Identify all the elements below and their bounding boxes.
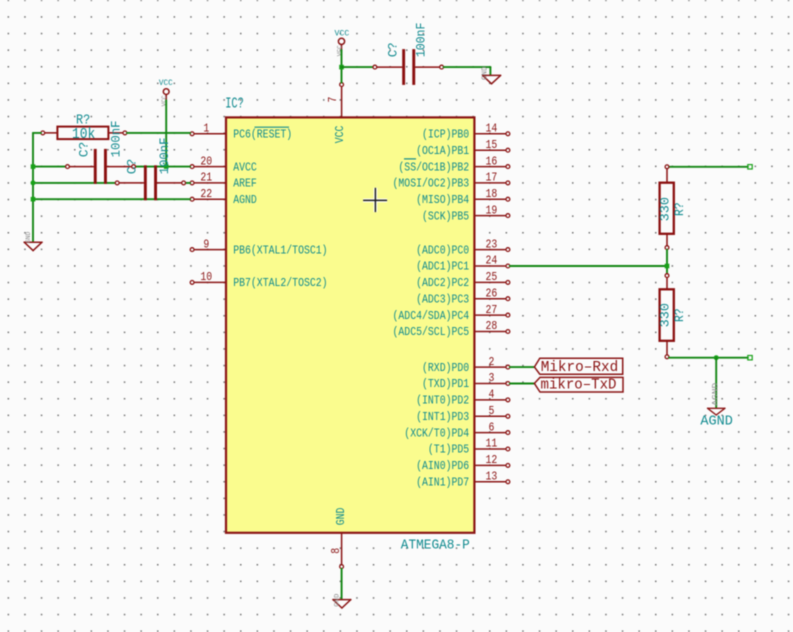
svg-text:(AIN1)PD7: (AIN1)PD7 <box>416 477 469 490</box>
wire junction to capacitor C? (top) <box>342 66 373 68</box>
svg-text:3: 3 <box>488 372 494 385</box>
pin 9 PB6(XTAL1/TOSC1) <box>190 238 327 257</box>
svg-text:330: 330 <box>657 197 672 221</box>
IC? reference label <box>225 95 244 112</box>
svg-text:(OC1A)PB1: (OC1A)PB1 <box>416 145 469 158</box>
pin 22 AGND <box>190 188 257 207</box>
pin 10 PB7(XTAL2/TOSC2) <box>190 271 327 290</box>
wire junction down to AGND <box>715 358 717 408</box>
pin 24 (ADC1)PC1 <box>416 255 510 274</box>
svg-text:C?: C? <box>125 159 140 175</box>
unconnected wire end (top right) <box>748 165 752 169</box>
330 value (upper resistor) <box>657 197 672 221</box>
power symbol VCC (left) <box>159 78 173 100</box>
svg-text:(TXD)PD1: (TXD)PD1 <box>422 378 469 391</box>
100nF value (top capacitor) <box>414 23 429 58</box>
pin 18 (MISO)PB4 <box>416 188 510 207</box>
resistor R? 330 (lower) <box>660 274 674 359</box>
op-amp U1 IC? ATMEGA8-P body <box>226 117 474 532</box>
svg-text:5: 5 <box>488 405 494 418</box>
svg-text:PC6(RESET): PC6(RESET) <box>233 129 292 142</box>
svg-text:18: 18 <box>486 188 498 201</box>
svg-text:GND: GND <box>335 507 348 525</box>
pin 17 (MOSI/OC2)PB3 <box>393 172 510 191</box>
hidden pin text GND (left) <box>25 232 32 244</box>
svg-text:(MISO)PB4: (MISO)PB4 <box>416 194 469 207</box>
330 value (lower resistor) <box>657 303 672 327</box>
svg-text:AVCC: AVCC <box>233 161 257 174</box>
svg-text:AGND: AGND <box>233 194 257 207</box>
svg-text:15: 15 <box>486 139 498 152</box>
global label Mikro-Rxd <box>534 358 622 376</box>
svg-text:13: 13 <box>486 471 498 484</box>
svg-text:Mikro–Rxd: Mikro–Rxd <box>541 360 619 376</box>
hidden pin text AGND <box>712 383 721 406</box>
svg-text:PB7(XTAL2/TOSC2): PB7(XTAL2/TOSC2) <box>233 277 327 290</box>
pin 20 AVCC <box>190 155 257 174</box>
C? reference (top capacitor) <box>385 43 400 58</box>
C? reference (AVCC capacitor) <box>76 142 91 158</box>
svg-text:2: 2 <box>488 356 494 369</box>
power symbol AGND <box>708 408 725 415</box>
svg-text:1: 1 <box>203 123 209 136</box>
wire R? to pin 1 <box>127 132 190 134</box>
wire between resistors <box>666 250 668 274</box>
svg-text:(ADC4/SDA)PC4: (ADC4/SDA)PC4 <box>393 310 470 323</box>
pin 23 (ADC0)PC0 <box>416 238 510 257</box>
svg-text:4: 4 <box>488 389 494 402</box>
svg-text:100nF: 100nF <box>109 120 124 157</box>
10k value <box>72 126 95 143</box>
C? reference (AREF capacitor) <box>125 159 140 175</box>
capacitor C? 100nF (AREF) <box>115 165 185 200</box>
wire bus to pin 22 (AGND row) <box>33 198 190 200</box>
wire capacitor to ground (top right) <box>444 67 491 75</box>
svg-text:(ICP)PB0: (ICP)PB0 <box>422 129 469 142</box>
svg-text:(INT0)PD2: (INT0)PD2 <box>416 395 469 408</box>
svg-text:7: 7 <box>327 97 340 103</box>
svg-text:GND: GND <box>482 67 490 81</box>
svg-text:11: 11 <box>486 438 498 451</box>
svg-text:25: 25 <box>486 271 498 284</box>
wire bus to capacitor C? (AREF row) <box>33 182 115 184</box>
wire capacitor C? to pin 20 <box>136 166 190 168</box>
pin 16 (SS/OC1B)PB2 <box>398 155 509 174</box>
svg-text:AREF: AREF <box>233 178 257 191</box>
pin 28 (ADC5/SCL)PC5 <box>393 320 510 339</box>
svg-text:10: 10 <box>200 271 212 284</box>
pin 7 VCC (top) <box>327 83 347 144</box>
R? reference (lower resistor) <box>672 308 687 322</box>
svg-text:R?: R? <box>672 308 687 322</box>
pin 5 (INT1)PD3 <box>416 405 510 424</box>
svg-text:(SCK)PB5: (SCK)PB5 <box>422 210 469 223</box>
svg-text:(MOSI/OC2)PB3: (MOSI/OC2)PB3 <box>393 178 470 191</box>
AGND net label <box>700 413 732 429</box>
capacitor C? 100nF (AVCC) <box>66 149 136 184</box>
svg-text:GND: GND <box>25 232 32 244</box>
svg-text:20: 20 <box>200 155 212 168</box>
pin 13 (AIN1)PD7 <box>416 471 510 490</box>
svg-text:6: 6 <box>488 421 494 434</box>
svg-text:(SS/OC1B)PB2: (SS/OC1B)PB2 <box>398 161 469 174</box>
wire capacitor C? to pin 21 <box>186 182 190 184</box>
pin 3 (TXD)PD1 <box>422 372 510 391</box>
svg-text:AGND: AGND <box>700 413 732 429</box>
svg-text:(INT1)PD3: (INT1)PD3 <box>416 411 469 424</box>
svg-text:GND: GND <box>334 594 341 607</box>
resistor R? 330 (upper) <box>660 165 674 250</box>
hidden pin text VCC (left) <box>161 95 168 106</box>
junction at VCC / C? top <box>339 65 344 70</box>
pin 26 (ADC3)PC3 <box>416 287 510 306</box>
svg-text:(ADC0)PC0: (ADC0)PC0 <box>416 244 469 257</box>
svg-text:26: 26 <box>486 287 498 300</box>
svg-text:C?: C? <box>76 142 91 158</box>
wire bus to capacitor C? (AVCC row) <box>33 166 66 168</box>
svg-text:(ADC1)PC1: (ADC1)PC1 <box>416 261 469 274</box>
pin 14 (ICP)PB0 <box>422 123 510 142</box>
svg-text:ATMEGA8-P: ATMEGA8-P <box>401 539 470 554</box>
pin 1 PC6(RESET) <box>190 123 292 142</box>
svg-text:16: 16 <box>486 155 498 168</box>
svg-text:14: 14 <box>486 123 498 136</box>
wire pin 2 to Mikro-Rxd label <box>510 366 535 368</box>
svg-text:19: 19 <box>486 204 498 217</box>
svg-text:22: 22 <box>200 188 212 201</box>
wire pin 8 to ground <box>341 569 343 599</box>
R? reference (upper resistor) <box>672 202 687 216</box>
junction bus at AGND row <box>31 197 36 202</box>
svg-text:27: 27 <box>486 304 498 317</box>
svg-text:(ADC2)PC2: (ADC2)PC2 <box>416 277 469 290</box>
pin 4 (INT0)PD2 <box>416 389 510 408</box>
pin 12 (AIN0)PD6 <box>416 454 510 473</box>
resistor R? 10k <box>41 127 127 140</box>
svg-text:28: 28 <box>486 320 498 333</box>
100nF value (AVCC capacitor) <box>109 120 124 157</box>
svg-text:VCC: VCC <box>334 125 347 143</box>
svg-text:(ADC5/SCL)PC5: (ADC5/SCL)PC5 <box>393 326 470 339</box>
svg-text:(T1)PD5: (T1)PD5 <box>428 444 469 457</box>
pin 25 (ADC2)PC2 <box>416 271 510 290</box>
svg-text:100nF: 100nF <box>157 137 172 174</box>
junction VCC at AVCC row <box>164 164 169 169</box>
pin 8 GND (bottom) <box>330 507 348 568</box>
svg-text:(RXD)PD0: (RXD)PD0 <box>422 362 469 375</box>
svg-text:VCC: VCC <box>335 28 350 38</box>
svg-text:9: 9 <box>203 238 209 251</box>
svg-text:mikro–TxD: mikro–TxD <box>541 378 617 394</box>
pin 6 (XCK/T0)PD4 <box>404 421 510 440</box>
junction bus at AREF row <box>31 180 36 185</box>
power symbol VCC (top) <box>335 28 350 50</box>
svg-text:100nF: 100nF <box>414 23 429 58</box>
junction resistor divider <box>665 264 670 269</box>
wire left vertical bus <box>32 133 34 241</box>
capacitor C? 100nF (top) <box>373 49 444 85</box>
wire VCC left down to AVCC row <box>165 100 167 166</box>
wire bus corner to R? <box>33 132 41 134</box>
wire pin 24 to resistor junction <box>510 265 667 267</box>
junction AGND drop <box>714 355 719 360</box>
R? reference (left resistor) <box>76 113 90 129</box>
pin 2 (RXD)PD0 <box>422 356 510 375</box>
ground symbol (top right) <box>483 75 501 83</box>
svg-text:(ADC3)PC3: (ADC3)PC3 <box>416 293 469 306</box>
editor crosshair cursor <box>363 188 387 212</box>
svg-text:24: 24 <box>486 255 498 268</box>
svg-text:C?: C? <box>385 43 400 58</box>
ATMEGA8-P value label <box>401 539 470 554</box>
100nF value (AREF capacitor) <box>157 137 172 174</box>
pin 21 AREF <box>190 172 257 191</box>
pin 19 (SCK)PB5 <box>422 204 510 223</box>
svg-text:(AIN0)PD6: (AIN0)PD6 <box>416 460 469 473</box>
svg-text:R?: R? <box>672 202 687 216</box>
ground symbol (bottom) <box>333 600 351 608</box>
svg-text:23: 23 <box>486 238 498 251</box>
svg-text:21: 21 <box>200 172 212 185</box>
wire VCC down to junction and pin 7 <box>341 50 343 83</box>
svg-text:AGND: AGND <box>712 383 721 406</box>
svg-text:VCC: VCC <box>159 78 173 88</box>
svg-text:8: 8 <box>330 548 343 554</box>
unconnected wire end (bottom right) <box>748 356 752 360</box>
hidden pin text VCC (top) <box>336 45 343 56</box>
global label mikro-TxD <box>534 377 623 393</box>
svg-text:17: 17 <box>486 172 498 185</box>
svg-text:IC?: IC? <box>225 95 244 112</box>
pin 11 (T1)PD5 <box>428 438 510 457</box>
svg-text:10k: 10k <box>72 126 95 143</box>
wire pin 3 to mikro-TxD label <box>510 383 535 385</box>
hidden pin text GND (bottom) <box>334 594 341 607</box>
ground symbol (left) <box>24 242 42 250</box>
svg-text:PB6(XTAL1/TOSC1): PB6(XTAL1/TOSC1) <box>233 244 327 257</box>
hidden pin text GND (top right) <box>482 67 490 81</box>
wire resistor R? top to open end <box>669 166 748 168</box>
wire resistor bottom to open end <box>669 357 748 359</box>
svg-text:330: 330 <box>657 303 672 327</box>
svg-text:12: 12 <box>486 454 498 467</box>
pin 15 (OC1A)PB1 <box>416 139 510 158</box>
junction bus at AVCC row <box>31 164 36 169</box>
pin 27 (ADC4/SDA)PC4 <box>393 304 510 323</box>
svg-text:(XCK/T0)PD4: (XCK/T0)PD4 <box>404 427 469 440</box>
